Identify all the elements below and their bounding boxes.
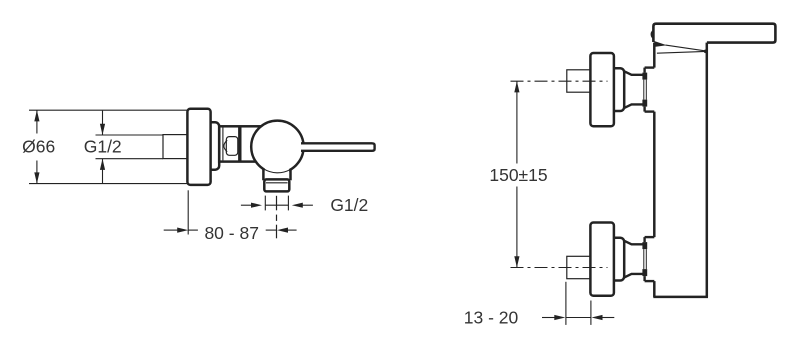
outlet dim right arrow shaft <box>302 204 313 206</box>
top eccentric union: stub <box>567 70 591 92</box>
dim 150±15 arrow up <box>514 81 519 92</box>
dim Ø66 line lower segment <box>36 161 38 184</box>
valve body mid section <box>219 126 262 161</box>
bottom union neck top edge <box>624 240 645 244</box>
svg-text:80 - 87: 80 - 87 <box>204 223 258 243</box>
handle bar <box>653 24 775 43</box>
handle lower diagonal thin <box>666 45 706 51</box>
dim 80-87 right arrowhead <box>277 228 288 233</box>
dim Ø66 line upper segment <box>36 110 38 133</box>
column left edge segment bottom <box>653 281 656 297</box>
hidden bottom arc (thin) <box>263 169 290 173</box>
svg-text:G1/2: G1/2 <box>330 195 368 215</box>
dim Ø66 arrow down <box>34 172 39 183</box>
top union neck bottom edge <box>624 104 645 108</box>
inlet stub G1/2 <box>163 135 188 159</box>
top centerline dash-dot <box>511 80 608 82</box>
top union flange <box>590 53 614 126</box>
column left edge segment top <box>653 43 656 68</box>
dim Ø66 arrow up <box>34 110 39 121</box>
bottom joint thin double lines <box>643 249 645 269</box>
handle wedge <box>654 41 667 47</box>
dim 80-87 extension line at flange <box>187 190 189 234</box>
top joint thin double lines <box>643 80 645 100</box>
outlet dim left arrow shaft <box>241 204 252 206</box>
dim 13-20 right arrow shaft <box>602 317 615 319</box>
dim 150±15 arrow down <box>514 256 519 267</box>
column bottom edge <box>653 296 708 299</box>
bottom eccentric union: stub <box>567 256 591 278</box>
body joint thick bar <box>238 127 241 161</box>
dim 80-87 left arrowhead <box>177 228 188 233</box>
handle pivot bump <box>652 31 654 38</box>
lever handle (side view) <box>301 143 375 151</box>
top union shoulder <box>610 68 624 111</box>
top joint collar steps <box>645 66 655 68</box>
outlet dim left arrowhead <box>251 203 262 208</box>
outlet dim right extension line <box>287 196 289 211</box>
dim G1/2 inlet arrow down <box>100 124 105 135</box>
collar mask <box>265 167 290 179</box>
dim 13-20 right extension line <box>590 301 592 325</box>
top joint square upper <box>642 73 647 80</box>
svg-text:150±15: 150±15 <box>489 165 547 185</box>
column left edge segment middle <box>653 112 656 238</box>
collar left side <box>262 168 265 180</box>
dim 150±15 line upper segment <box>516 81 518 163</box>
outlet G1/2 box <box>264 179 289 191</box>
union nut left thin edge <box>222 128 224 161</box>
escutcheon top thin line <box>657 51 706 53</box>
top joint square lower <box>642 100 647 107</box>
dim 13-20 left extension line <box>565 282 567 325</box>
bottom joint square upper <box>642 242 647 249</box>
dim 13-20 line between ticks <box>566 317 591 319</box>
outlet inner thin line <box>266 182 288 184</box>
dim G1/2 inlet upper arrow shaft <box>102 111 104 135</box>
top union neck top edge <box>624 71 645 75</box>
outlet centerline dashes <box>276 196 278 211</box>
bottom joint square lower <box>642 269 647 276</box>
dim G1/2 inlet arrow up <box>100 159 105 170</box>
bottom union flange <box>590 223 614 296</box>
bottom joint collar steps <box>645 236 655 238</box>
svg-text:13 - 20: 13 - 20 <box>464 308 519 328</box>
junction dot <box>704 50 708 54</box>
dim 13-20 right arrowhead <box>592 315 603 320</box>
dim G1/2 inlet lower arrow shaft <box>102 159 104 184</box>
bottom union shoulder <box>610 238 624 281</box>
dim 13-20 left arrow shaft <box>542 317 555 319</box>
outlet dim line between ticks <box>265 204 288 206</box>
dim 80-87 line right segment <box>266 229 277 231</box>
union nut <box>226 137 238 156</box>
bottom centerline dash-dot <box>511 267 608 269</box>
dim 13-20 left arrowhead <box>554 315 565 320</box>
valve body circle <box>251 121 303 173</box>
svg-text:G1/2: G1/2 <box>84 137 122 157</box>
dim 150±15 line lower segment <box>516 187 518 268</box>
union nut left arc <box>224 140 227 152</box>
dim 80-87 line left segment <box>188 229 198 231</box>
wall flange <box>187 109 210 185</box>
svg-text:Ø66: Ø66 <box>22 137 55 157</box>
bottom union neck bottom edge <box>624 274 645 278</box>
dim Ø66 top extension line <box>29 109 187 111</box>
dim G1/2 inlet top extension line <box>96 134 164 136</box>
dim G1/2 inlet bottom extension line <box>96 158 164 160</box>
dim 80-87 left arrow shaft <box>164 229 178 231</box>
column right edge <box>706 42 709 297</box>
dim Ø66 bottom extension line <box>29 183 187 185</box>
collar right side <box>289 169 292 181</box>
wall flange shoulder <box>206 122 219 169</box>
outlet dim left extension line <box>264 196 266 211</box>
outlet dim right arrowhead <box>292 203 303 208</box>
dim 80-87 right arrow shaft <box>287 229 296 231</box>
